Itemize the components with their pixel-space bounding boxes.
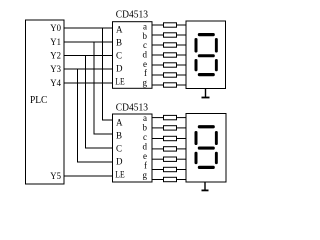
wire U2 g to resistor	[152, 179, 164, 181]
wire U2 b to resistor	[152, 127, 164, 129]
IC U2 CD4513 box	[113, 114, 153, 182]
resistor R2d	[164, 147, 177, 151]
wire Y3 to U1 pin D	[64, 68, 113, 70]
svg-text:D: D	[116, 156, 123, 166]
wire resistor to DS1 g	[177, 84, 187, 86]
resistor R1d	[164, 53, 177, 57]
wire Y5 to U2 pin LE	[64, 175, 113, 177]
svg-text:c: c	[143, 132, 147, 142]
display DS2 box	[186, 114, 226, 183]
wire U2 c to resistor	[152, 138, 164, 140]
resistor R2c	[164, 136, 177, 140]
svg-text:g: g	[143, 77, 148, 87]
svg-text:C: C	[116, 143, 122, 153]
wire U1 c to resistor	[152, 44, 164, 46]
wire Y4 to U1 pin LE	[64, 82, 113, 84]
wire U2 f to resistor	[152, 169, 164, 171]
display DS1 box	[186, 21, 226, 89]
wire U1 f to resistor	[152, 74, 164, 76]
wire resistor to DS1 c	[177, 44, 187, 46]
wire U2 d to resistor	[152, 148, 164, 150]
ground DS2	[202, 182, 209, 190]
resistor R2b	[164, 126, 177, 130]
svg-text:e: e	[143, 151, 147, 161]
ground DS1	[202, 89, 210, 98]
svg-text:A: A	[116, 117, 123, 127]
wire bus vertical Y1 down to U2 pin B	[94, 42, 113, 134]
wire resistor to DS2 e	[177, 158, 187, 160]
svg-text:B: B	[116, 130, 122, 140]
svg-text:a: a	[143, 113, 147, 123]
resistor R1e	[164, 63, 177, 67]
wire bus vertical Y2 down to U2 pin C	[86, 56, 113, 149]
wire resistor to DS2 b	[177, 127, 187, 129]
svg-text:A: A	[116, 25, 123, 35]
wire Y0 to U1 pin A	[64, 27, 113, 29]
svg-text:d: d	[143, 142, 148, 152]
wire resistor to DS2 f	[177, 169, 187, 171]
svg-text:f: f	[144, 161, 147, 171]
resistor R1g	[164, 83, 177, 87]
resistor R2f	[164, 167, 177, 171]
wire Y2 to U1 pin C	[64, 55, 113, 57]
resistor R1b	[164, 33, 177, 37]
resistor R2g	[164, 177, 177, 181]
resistor R2a	[164, 115, 177, 119]
resistor R1f	[164, 73, 177, 77]
PLC box	[26, 20, 65, 184]
resistor R1a	[164, 23, 177, 27]
wire U1 g to resistor	[152, 84, 164, 86]
wire U2 e to resistor	[152, 158, 164, 160]
svg-text:PLC: PLC	[30, 94, 47, 106]
wire bus vertical Y0 down to U2 pin A	[103, 28, 113, 120]
wire resistor to DS2 g	[177, 179, 187, 181]
resistor R2e	[164, 157, 177, 161]
wire resistor to DS1 e	[177, 64, 187, 66]
svg-text:Y0: Y0	[50, 24, 61, 34]
svg-text:Y5: Y5	[50, 172, 61, 182]
wire resistor to DS2 a	[177, 117, 187, 119]
wire U2 a to resistor	[152, 117, 164, 119]
wire U1 a to resistor	[152, 24, 164, 26]
svg-text:Y4: Y4	[50, 79, 61, 89]
wire resistor to DS2 d	[177, 148, 187, 150]
svg-text:b: b	[143, 123, 148, 133]
wire resistor to DS1 d	[177, 54, 187, 56]
wire resistor to DS2 c	[177, 138, 187, 140]
wire resistor to DS1 a	[177, 24, 187, 26]
svg-text:Y3: Y3	[50, 65, 61, 75]
wire resistor to DS1 f	[177, 74, 187, 76]
display DS2 7-segment digit	[195, 125, 218, 169]
svg-text:C: C	[116, 51, 122, 61]
wire resistor to DS1 b	[177, 34, 187, 36]
display DS1 7-segment digit	[195, 33, 218, 76]
IC U1 CD4513 box	[113, 22, 153, 89]
svg-text:D: D	[116, 64, 123, 74]
svg-text:LE: LE	[115, 77, 125, 87]
svg-text:LE: LE	[115, 169, 125, 179]
wire Y1 to U1 pin B	[64, 41, 113, 43]
svg-text:Y2: Y2	[50, 51, 61, 61]
svg-text:B: B	[116, 38, 122, 48]
wire U1 d to resistor	[152, 54, 164, 56]
svg-text:g: g	[143, 170, 148, 180]
resistor R1c	[164, 43, 177, 47]
wire U1 b to resistor	[152, 34, 164, 36]
svg-text:CD4513: CD4513	[116, 9, 148, 20]
wire bus vertical Y3 down to U2 pin D	[78, 69, 113, 162]
svg-text:Y1: Y1	[50, 38, 61, 48]
wire U1 e to resistor	[152, 64, 164, 66]
